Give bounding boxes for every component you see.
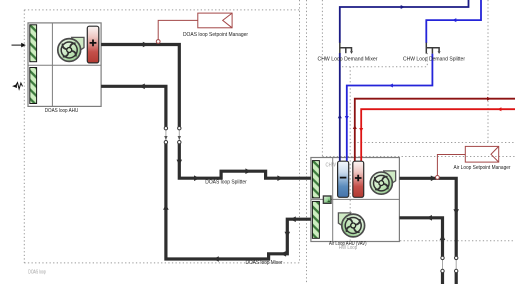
svg-text:DOAS loop: DOAS loop <box>28 269 46 275</box>
svg-text:CHW Loop Demand Mixer: CHW Loop Demand Mixer <box>318 57 378 63</box>
svg-text:DOAS loop AHU: DOAS loop AHU <box>45 108 79 114</box>
svg-text:DOAS loop Splitter: DOAS loop Splitter <box>205 180 247 186</box>
svg-text:CHW Loop Demand Splitter: CHW Loop Demand Splitter <box>403 57 465 63</box>
svg-text:DOAS loop Setpoint Manager: DOAS loop Setpoint Manager <box>183 32 248 38</box>
svg-text:Air Loop Setpoint Manager: Air Loop Setpoint Manager <box>454 165 511 171</box>
svg-text:DOAS loop Mixer: DOAS loop Mixer <box>246 260 283 266</box>
svg-text:Air Loop AHU (VAV): Air Loop AHU (VAV) <box>329 241 367 247</box>
